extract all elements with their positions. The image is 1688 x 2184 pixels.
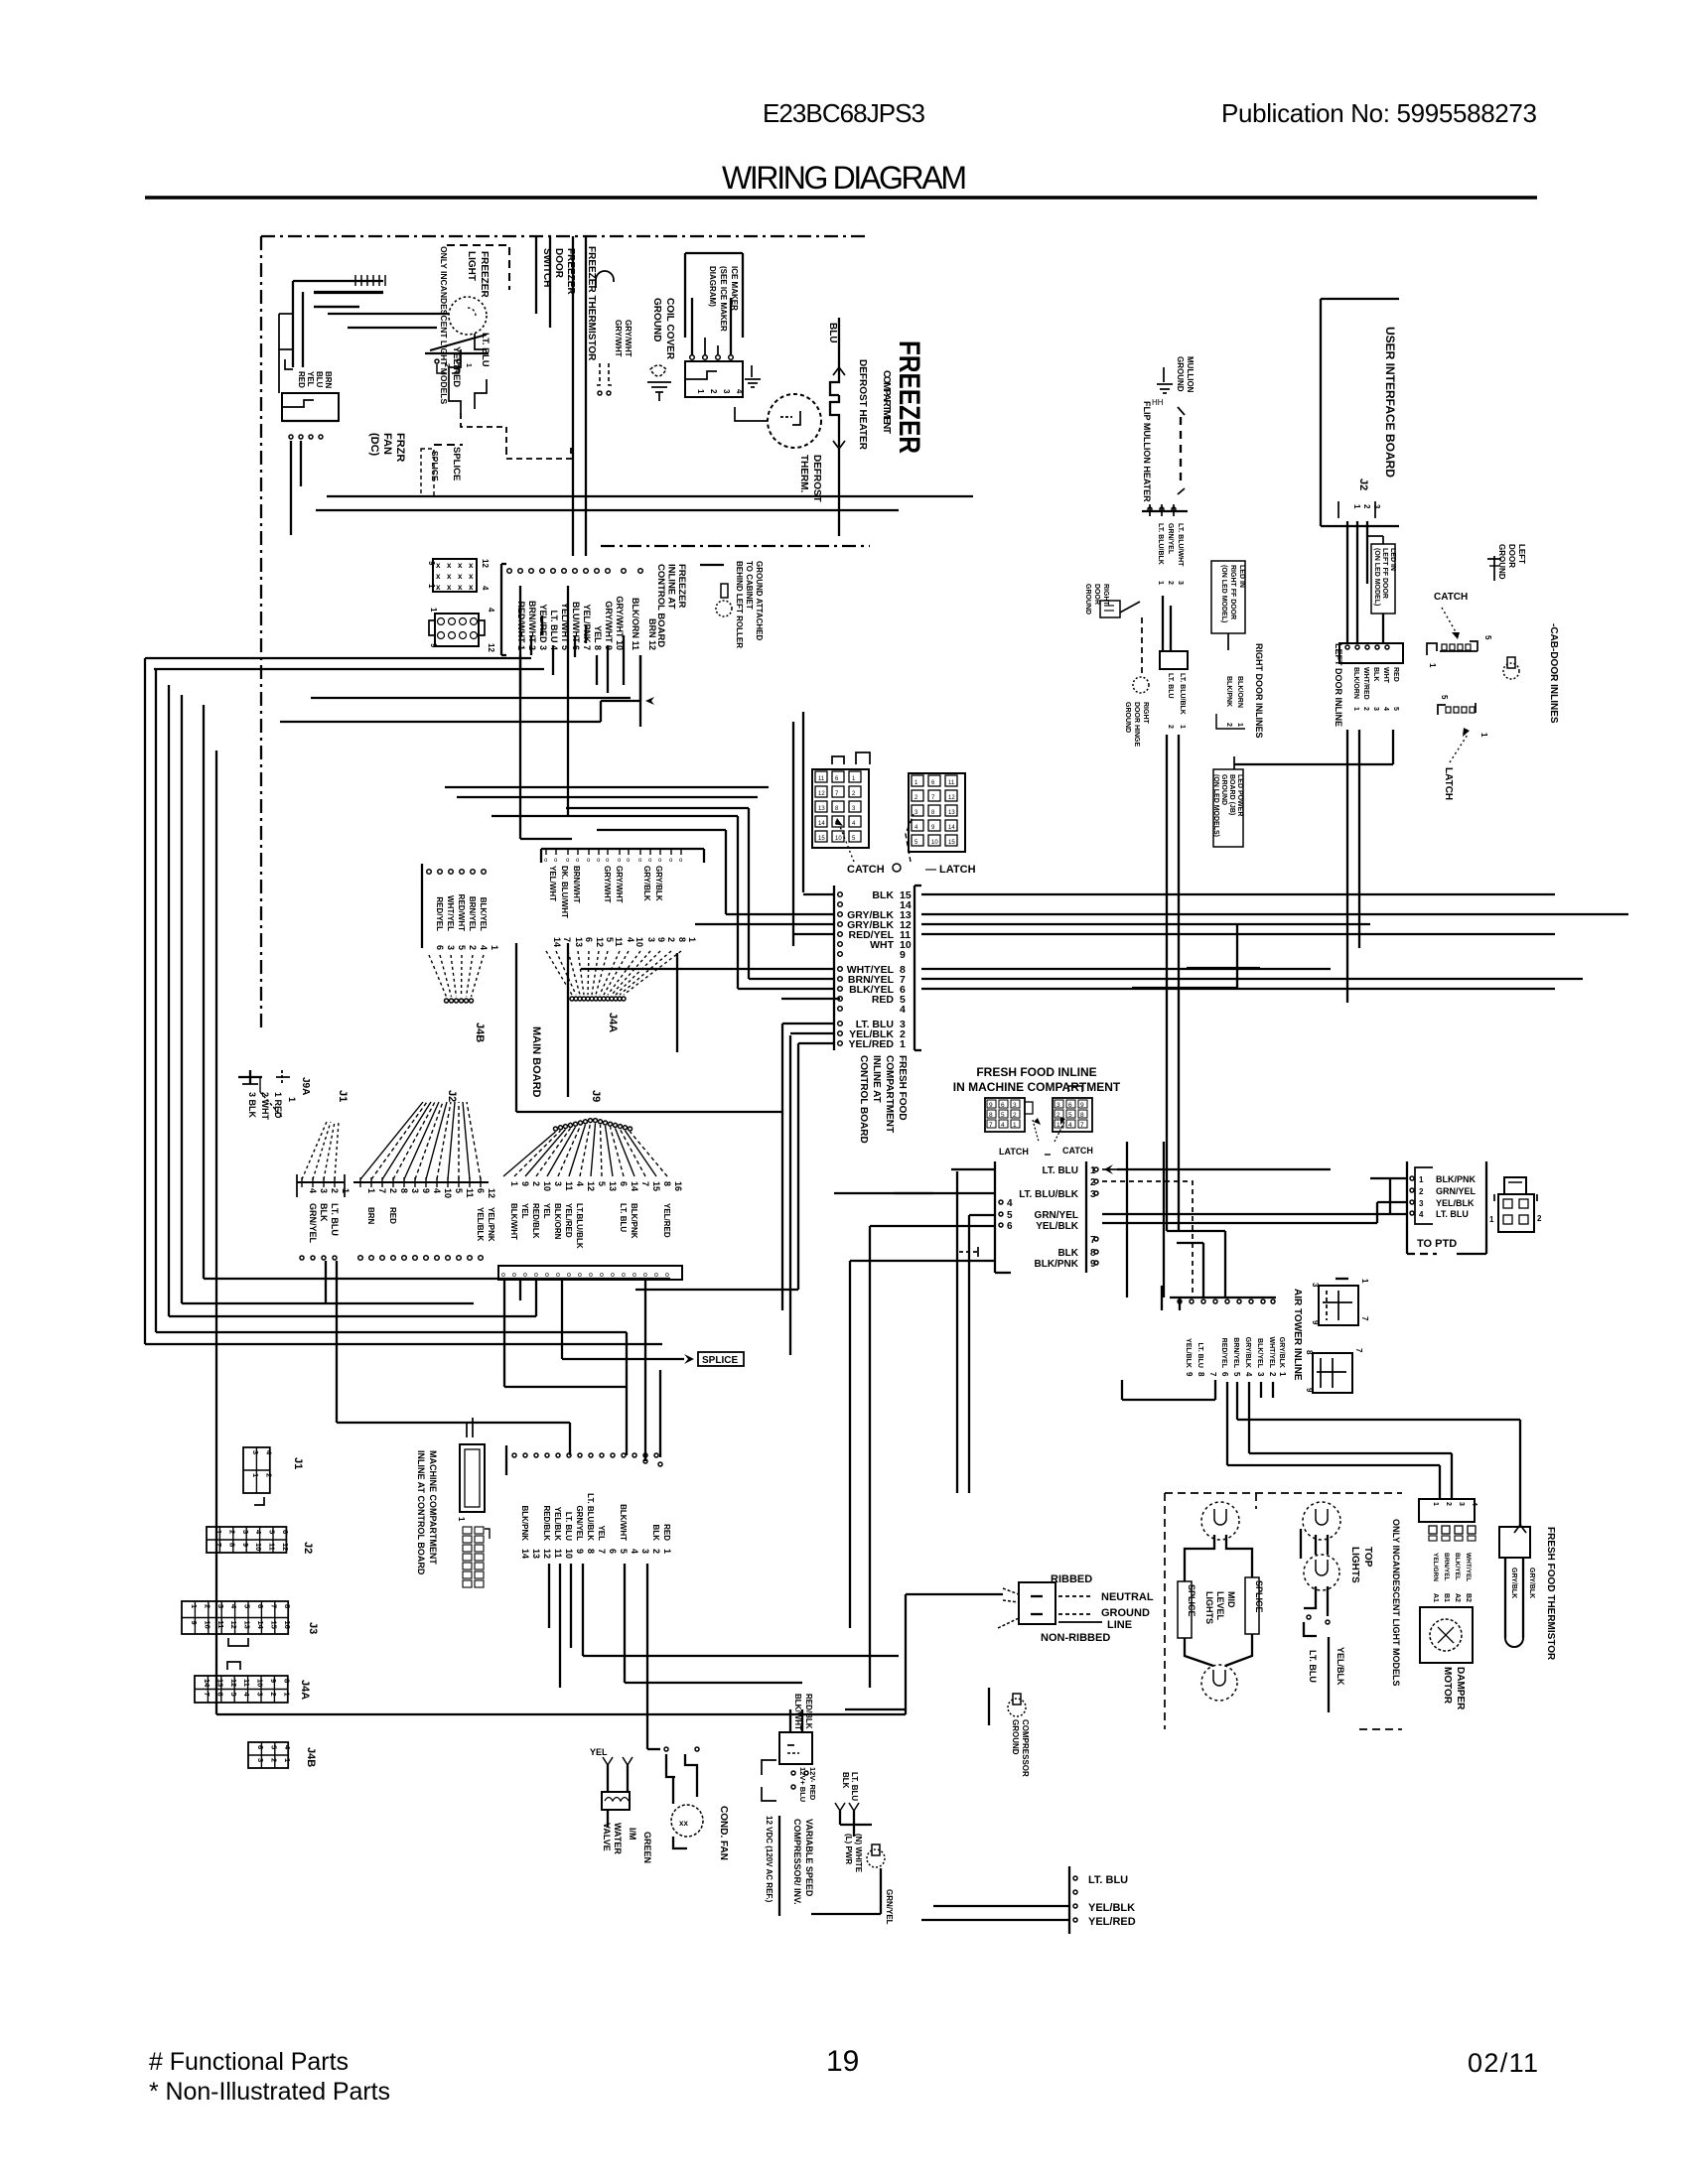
svg-text:13: 13 (818, 806, 825, 812)
svg-text:6: 6 (281, 1530, 290, 1534)
svg-text:13: 13 (243, 1621, 252, 1629)
svg-text:1: 1 (190, 1604, 199, 1608)
svg-text:3: 3 (251, 1450, 260, 1454)
water valve leads (607, 1765, 609, 1792)
wire freezer light leads (475, 334, 487, 349)
svg-text:5: 5 (269, 1745, 278, 1749)
svg-text:5: 5 (229, 1693, 238, 1697)
splice arrow wire (562, 1358, 684, 1360)
svg-text:COND. FAN: COND. FAN (718, 1806, 729, 1860)
air tower pin 6 RED/YEL (1213, 1299, 1217, 1303)
svg-text:BLK/YEL: BLK/YEL (1256, 1338, 1263, 1369)
svg-text:ONLY INCANDESCENT LIGHT MODELS: ONLY INCANDESCENT LIGHT MODELS (1391, 1519, 1401, 1687)
svg-text:J4B: J4B (474, 1023, 486, 1042)
svg-text:5: 5 (1440, 695, 1449, 700)
svg-text:8: 8 (989, 1112, 993, 1119)
svg-text:9: 9 (575, 1549, 585, 1554)
wire air tower elbow right (1237, 1419, 1520, 1421)
svg-text:J9A: J9A (300, 1077, 311, 1095)
svg-text:x: x (469, 583, 474, 592)
svg-text:CONTROL BOARD: CONTROL BOARD (858, 1055, 869, 1144)
svg-text:LT. BLU 4: LT. BLU 4 (549, 611, 559, 650)
svg-text:1: 1 (1428, 663, 1437, 668)
svg-text:J1: J1 (337, 1090, 349, 1102)
svg-text:1: 1 (687, 937, 697, 942)
svg-text:2: 2 (264, 1473, 273, 1477)
svg-text:1: 1 (696, 389, 705, 394)
svg-text:8: 8 (1305, 1350, 1314, 1355)
TO PTD pin 2 GRN/YEL (1410, 1188, 1414, 1192)
svg-text:9: 9 (421, 1188, 431, 1193)
svg-text:COMPRESSOR: COMPRESSOR (1021, 1719, 1030, 1777)
svg-text:4: 4 (308, 1188, 318, 1193)
J1 fan (302, 1122, 327, 1179)
svg-text:o: o (600, 1272, 604, 1279)
svg-text:CATCH: CATCH (1434, 592, 1468, 603)
ff ctrl board pin 13 GRY/BLK (838, 912, 843, 917)
svg-text:WIRING DIAGRAM: WIRING DIAGRAM (722, 160, 967, 196)
wire inverter feeds (789, 1709, 791, 1732)
svg-text:FRESH FOOD INLINE: FRESH FOOD INLINE (976, 1065, 1096, 1079)
wire upper vertical 799 (792, 722, 794, 946)
compressor ground bulb 2 (1008, 1699, 1026, 1716)
svg-text:LT. BLU: LT. BLU (1308, 1650, 1318, 1683)
ice maker pins (690, 355, 695, 360)
svg-text:14: 14 (203, 1679, 211, 1688)
svg-text:DOOR: DOOR (1507, 544, 1516, 568)
svg-text:11: 11 (818, 776, 825, 782)
defrost heater arrow bottom (833, 441, 845, 449)
svg-text:16: 16 (673, 1181, 683, 1191)
wire cord left (906, 1593, 1003, 1595)
svg-text:2: 2 (1013, 1112, 1017, 1119)
svg-text:3: 3 (1372, 707, 1379, 711)
freezer inline bracket (500, 564, 502, 655)
svg-text:SPLICE: SPLICE (451, 447, 462, 480)
svg-text:2: 2 (330, 1188, 340, 1193)
svg-text:2: 2 (1362, 707, 1369, 711)
defrost therm circle (768, 394, 821, 448)
freezer ctrl board pin YEL/RED 3 (529, 569, 534, 574)
svg-text:WHT: WHT (870, 939, 894, 951)
freezer ctrl board pin RED/WHT 1 (507, 569, 512, 574)
svg-text:SPLICE: SPLICE (1187, 1584, 1196, 1617)
splice dashed path (461, 413, 506, 449)
svg-text:10: 10 (203, 1621, 211, 1629)
svg-text:2: 2 (1225, 723, 1232, 727)
svg-text:4: 4 (1382, 707, 1389, 711)
svg-text:RIGHT DOOR INLINES: RIGHT DOOR INLINES (1254, 643, 1264, 739)
water valve coil box (602, 1792, 630, 1810)
svg-text:8: 8 (227, 1543, 236, 1547)
dashed box only incandescent right (1165, 1492, 1402, 1494)
svg-text:1: 1 (465, 363, 472, 367)
svg-text:2: 2 (269, 1693, 278, 1697)
svg-text:YEL/PNK: YEL/PNK (487, 1207, 495, 1242)
svg-text:BLK/PNK: BLK/PNK (1035, 1259, 1079, 1270)
svg-text:4: 4 (1471, 1502, 1477, 1506)
wire bar drop to y1397 (503, 1281, 505, 1387)
ff ctrl board pin 7 BRN/YEL (838, 977, 843, 982)
svg-text:9: 9 (1305, 1388, 1314, 1393)
freezer light splice steps (449, 387, 461, 413)
svg-text:2: 2 (709, 389, 718, 394)
svg-text:SPLICE: SPLICE (1254, 1580, 1264, 1613)
svg-text:* Non-Illustrated Parts: * Non-Illustrated Parts (149, 2078, 390, 2106)
flip mullion heater dashed (1178, 407, 1185, 415)
wire freezer area verticals (535, 236, 537, 314)
J2 table (207, 1527, 286, 1553)
svg-text:LT. BLU: LT. BLU (1043, 1165, 1078, 1176)
svg-text:8: 8 (282, 1679, 291, 1683)
freezer ctrl board pin BLU/WHT 6 (562, 569, 567, 574)
svg-text:6: 6 (435, 945, 445, 950)
svg-text:10: 10 (835, 836, 842, 842)
svg-text:RED: RED (872, 994, 895, 1006)
svg-text:9: 9 (269, 1679, 278, 1683)
freezer ctrl board pin BRN/WHT 2 (518, 569, 523, 574)
right door small connector (1160, 651, 1188, 669)
freezer inline connector grid B (435, 614, 479, 646)
svg-text:9: 9 (1311, 1320, 1320, 1325)
svg-text:LATCH: LATCH (999, 1147, 1029, 1157)
svg-text:# Functional Parts: # Functional Parts (149, 2048, 349, 2076)
svg-text:2: 2 (1167, 581, 1174, 585)
svg-text:BRN/YEL: BRN/YEL (468, 896, 477, 931)
frzr fan pins (289, 435, 293, 439)
wire mullion down (1162, 596, 1164, 651)
inverter bracket hooks (762, 1760, 776, 1775)
wire horizontals under freezer light (314, 292, 383, 294)
svg-text:LED IN: LED IN (1238, 565, 1245, 588)
svg-text:J2: J2 (1357, 478, 1369, 490)
svg-text:o: o (556, 1272, 560, 1279)
svg-text:BLK/YEL: BLK/YEL (1454, 1553, 1461, 1580)
svg-text:4: 4 (1001, 1122, 1005, 1129)
svg-text:GROUND: GROUND (1124, 702, 1131, 733)
svg-text:FRESH FOOD THERMISTOR: FRESH FOOD THERMISTOR (1545, 1527, 1556, 1661)
svg-text:xx: xx (679, 1819, 688, 1828)
freezer light circle (449, 297, 487, 335)
freezer compartment dash-dot boundary (260, 236, 262, 1032)
svg-text:FREEZER: FREEZER (479, 251, 490, 298)
svg-text:AIR TOWER INLINE: AIR TOWER INLINE (1292, 1289, 1303, 1381)
svg-text:9: 9 (520, 1181, 530, 1186)
machine compartment connector tall (460, 1444, 485, 1512)
left door inline connector (1339, 643, 1403, 663)
svg-text:3: 3 (640, 1549, 650, 1554)
svg-text:BLK/PNK: BLK/PNK (630, 1203, 638, 1239)
svg-text:3: 3 (1458, 1502, 1465, 1506)
svg-text:WHT: WHT (1382, 667, 1389, 684)
cond fan leads (672, 1777, 674, 1804)
svg-text:3: 3 (722, 389, 731, 394)
svg-text:6: 6 (1068, 1102, 1072, 1109)
freezer ctrl board pin YEL 8 (584, 569, 589, 574)
svg-text:13: 13 (531, 1549, 541, 1559)
svg-text:o: o (611, 1272, 615, 1279)
wire ff pin2 dashed (1102, 1181, 1193, 1298)
svg-text:J2: J2 (302, 1542, 314, 1554)
svg-text:RIGHT: RIGHT (1142, 702, 1149, 725)
wire right band h2 (1187, 967, 1260, 969)
svg-text:02/11: 02/11 (1468, 2048, 1538, 2078)
svg-text:BLK/PNK: BLK/PNK (1225, 676, 1232, 707)
svg-text:A1: A1 (1432, 1593, 1439, 1602)
svg-text:LT. BLU: LT. BLU (619, 1203, 628, 1232)
ff inline grid latch (1053, 1098, 1092, 1132)
machine inline pin row (512, 1453, 516, 1457)
svg-text:10: 10 (443, 1188, 453, 1198)
svg-text:GROUND: GROUND (1101, 1607, 1150, 1619)
svg-text:9: 9 (241, 1543, 250, 1547)
svg-text:LEFT: LEFT (1517, 544, 1526, 564)
svg-text:4: 4 (626, 937, 635, 942)
svg-text:8: 8 (662, 1181, 672, 1186)
svg-text:Publication No: 5995588273: Publication No: 5995588273 (1221, 98, 1537, 128)
svg-text:3: 3 (241, 1530, 250, 1534)
svg-text:12: 12 (487, 1188, 496, 1198)
svg-text:3: 3 (216, 1604, 225, 1608)
svg-text:LIGHTS: LIGHTS (1204, 1591, 1214, 1624)
svg-text:2 WHT: 2 WHT (260, 1092, 270, 1121)
svg-text:DIAGRAM): DIAGRAM) (708, 266, 717, 307)
wire compressor ground (880, 1868, 882, 1914)
svg-text:BLK: BLK (1372, 667, 1379, 681)
wire J4A right drop (676, 953, 678, 1052)
svg-text:CATCH: CATCH (1062, 1146, 1093, 1156)
svg-text:LEVEL: LEVEL (1215, 1591, 1225, 1621)
wire ff left leads (951, 1168, 995, 1170)
svg-text:FRESH FOOD: FRESH FOOD (897, 1055, 908, 1121)
wire center band verticals (849, 1261, 851, 1628)
wire drop to machine pin4 (626, 1332, 628, 1455)
inverter vertical rail (778, 1816, 780, 1916)
svg-text:RED: RED (1392, 667, 1399, 682)
svg-text:GREEN: GREEN (642, 1832, 652, 1863)
svg-text:15: 15 (948, 840, 955, 846)
wire bottom right leads (933, 1905, 1069, 1907)
svg-text:12: 12 (818, 791, 825, 797)
left door ground symbol (1493, 556, 1495, 581)
LED in right FF door box (1211, 561, 1245, 633)
svg-text:BEHIND LEFT ROLLER: BEHIND LEFT ROLLER (735, 561, 744, 648)
svg-text:RED: RED (662, 1524, 671, 1541)
svg-text:1: 1 (662, 1549, 672, 1554)
svg-text:x: x (447, 583, 452, 592)
freezer ctrl board pin LT. BLU 4 (540, 569, 545, 574)
cord pin dashes (1058, 1595, 1092, 1597)
svg-text:J3: J3 (307, 1622, 319, 1634)
freezer thermistor leads (594, 363, 600, 385)
svg-text:COIL COVER: COIL COVER (664, 298, 675, 360)
svg-text:6: 6 (1007, 1221, 1013, 1232)
right latch symbol (1427, 643, 1437, 655)
svg-text:BLK/ORN 11: BLK/ORN 11 (631, 598, 640, 650)
svg-text:1: 1 (283, 1758, 292, 1762)
catch dotted arrow (839, 824, 854, 862)
wire drop to machine pin10 (569, 1423, 571, 1455)
svg-text:x: x (447, 572, 452, 581)
svg-text:1: 1 (1489, 1215, 1494, 1224)
coil cover ground symbol (650, 365, 666, 376)
svg-text:GRN/YEL: GRN/YEL (308, 1203, 318, 1244)
svg-text:4: 4 (479, 945, 489, 950)
svg-text:TO CABINET: TO CABINET (745, 561, 754, 610)
wire center vertical a (781, 1024, 783, 1310)
svg-text:DEFROST: DEFROST (811, 455, 822, 502)
svg-text:6: 6 (1220, 1372, 1229, 1377)
freezer ctrl board pin BLK/ORN 11 (622, 569, 627, 574)
svg-text:1: 1 (287, 1097, 297, 1102)
freezer ctrl board pin YEL/PNK 7 (573, 569, 578, 574)
svg-text:BLK/ORN: BLK/ORN (1352, 667, 1359, 699)
svg-text:BRN/WHT: BRN/WHT (572, 866, 581, 903)
svg-text:LINE: LINE (1107, 1619, 1132, 1631)
svg-text:3: 3 (256, 1758, 265, 1762)
svg-text:J4A: J4A (607, 1013, 619, 1032)
machine inline pin wires down (548, 1564, 550, 1628)
svg-text:GRN/YEL: GRN/YEL (1436, 1186, 1477, 1196)
svg-text:5: 5 (1483, 635, 1492, 640)
svg-text:4: 4 (900, 1004, 906, 1016)
TO PTD pin 3 YEL/BLK (1410, 1200, 1414, 1204)
svg-text:YEL/BLK: YEL/BLK (476, 1207, 485, 1241)
svg-text:TO PTD: TO PTD (1417, 1238, 1457, 1250)
svg-text:FREEZER: FREEZER (565, 248, 576, 295)
svg-text:YEL/RED: YEL/RED (564, 1203, 573, 1238)
ff inline bracket (994, 1161, 996, 1273)
svg-text:x: x (447, 561, 452, 570)
wire ff pins left (803, 893, 834, 895)
machine inline bracket (505, 1445, 507, 1475)
wire machine horiz (583, 1655, 899, 1657)
J4A table (195, 1676, 288, 1703)
svg-text:BLK: BLK (651, 1525, 660, 1542)
svg-text:5: 5 (605, 937, 615, 942)
catch dotted line right (1442, 608, 1458, 635)
svg-text:YEL/BLK: YEL/BLK (1088, 1902, 1135, 1914)
J4A header bar (541, 848, 704, 850)
svg-text:NEUTRAL: NEUTRAL (1101, 1591, 1154, 1603)
svg-text:1: 1 (1419, 1175, 1424, 1184)
svg-text:LT. BLU/BLK: LT. BLU/BLK (1019, 1189, 1079, 1200)
svg-text:GRY/BLK: GRY/BLK (1244, 1337, 1251, 1368)
J9A connector (249, 1070, 251, 1084)
svg-text:2: 2 (203, 1604, 211, 1608)
dash-dot line freezer inline (601, 545, 870, 547)
svg-text:BRN: BRN (324, 371, 333, 389)
svg-text:GROUND: GROUND (1084, 584, 1091, 614)
svg-text:14: 14 (552, 937, 562, 947)
svg-text:GRY/BLK: GRY/BLK (1528, 1568, 1535, 1598)
svg-text:GRY/WHT: GRY/WHT (614, 320, 623, 357)
svg-text:GROUND: GROUND (1497, 544, 1506, 580)
svg-text:6: 6 (608, 1549, 618, 1554)
svg-text:GROUND ATTACHED: GROUND ATTACHED (755, 561, 764, 641)
wire air tower feeds (1179, 1297, 1181, 1310)
svg-text:WHT/RED: WHT/RED (1362, 667, 1369, 700)
top light bulb 2 (1304, 1555, 1339, 1590)
wire center band h1 (834, 1192, 933, 1194)
dotted arrow latch right2 (1450, 735, 1468, 762)
air tower pin 8 LT. BLU (1190, 1299, 1194, 1303)
wire center band h2 (870, 1225, 995, 1227)
wire LED box to connector (1382, 614, 1384, 643)
wire horizontal mid-left (280, 721, 601, 723)
wire defrost therm leads (735, 407, 768, 421)
svg-text:9: 9 (429, 643, 438, 648)
svg-text:INLINE AT: INLINE AT (666, 564, 677, 610)
svg-text:(ON LED MODEL): (ON LED MODEL) (1220, 565, 1227, 622)
svg-text:2: 2 (651, 1549, 661, 1554)
svg-text:o: o (534, 1272, 538, 1279)
svg-text:DK. BLU/WHT: DK. BLU/WHT (560, 866, 569, 918)
wire ff pin6 (1102, 1222, 1377, 1224)
wire upper vertical 743 (737, 816, 739, 989)
ff ctrl board pin 12 GRY/BLK (838, 922, 843, 927)
svg-text:BLU: BLU (315, 371, 324, 388)
svg-text:2: 2 (531, 1181, 541, 1186)
compressor lead wires (839, 1811, 841, 1825)
TO PTD pin 1 BLK/PNK (1410, 1176, 1414, 1180)
wire ff pin5 (1102, 1213, 1407, 1215)
catch connector grid (812, 769, 869, 848)
wire damper feeds (1451, 1453, 1453, 1499)
wire left door inline down (1346, 730, 1348, 1003)
catch latch circle (893, 864, 901, 872)
svg-text:BLK/WHT: BLK/WHT (793, 1694, 802, 1730)
ff ctrl board pin 10 WHT (838, 942, 843, 947)
svg-text:BLK/WHT: BLK/WHT (619, 1504, 628, 1541)
svg-text:MID: MID (1226, 1591, 1236, 1608)
svg-text:8: 8 (399, 1188, 409, 1193)
damper connector (1419, 1499, 1475, 1522)
air tower latch grid 1 (1319, 1286, 1358, 1325)
svg-text:1: 1 (1056, 1122, 1060, 1129)
svg-text:FREEZER: FREEZER (893, 341, 925, 454)
svg-text:x: x (469, 561, 474, 570)
PTD plug symbol (1498, 1194, 1534, 1232)
svg-text:3: 3 (1256, 1372, 1265, 1377)
svg-text:7: 7 (989, 1122, 993, 1129)
svg-text:RED/WHT: RED/WHT (457, 894, 466, 931)
wire right door (1141, 617, 1143, 675)
svg-text:10: 10 (256, 1679, 265, 1687)
svg-text:SPLICE: SPLICE (430, 451, 440, 481)
svg-text:ONLY INCANDESCENT LIGHT MODELS: ONLY INCANDESCENT LIGHT MODELS (439, 246, 449, 404)
freezer door switch symbol (430, 335, 487, 350)
svg-text:10: 10 (542, 1181, 552, 1191)
svg-text:GRN/YEL: GRN/YEL (885, 1889, 894, 1925)
svg-text:J9: J9 (590, 1090, 602, 1102)
svg-text:2: 2 (1056, 1112, 1060, 1119)
svg-text:GRY/WHT 9: GRY/WHT 9 (604, 601, 614, 650)
svg-text:1: 1 (282, 1693, 291, 1697)
svg-text:15: 15 (269, 1621, 278, 1629)
svg-text:J4B: J4B (305, 1747, 317, 1767)
wire upper vertical 809 (802, 712, 804, 892)
wire right-center elbow (1167, 1230, 1225, 1232)
svg-text:1: 1 (1236, 723, 1243, 727)
wire thermistor from top (1519, 1420, 1521, 1527)
wire J9A lead (259, 1077, 261, 1092)
wire frzr fan feeds (292, 281, 294, 367)
svg-text:1: 1 (1278, 1372, 1287, 1377)
svg-text:1: 1 (900, 1038, 906, 1050)
svg-text:BOARD (JB): BOARD (JB) (1228, 774, 1235, 815)
ff inline grid catch (985, 1098, 1025, 1132)
